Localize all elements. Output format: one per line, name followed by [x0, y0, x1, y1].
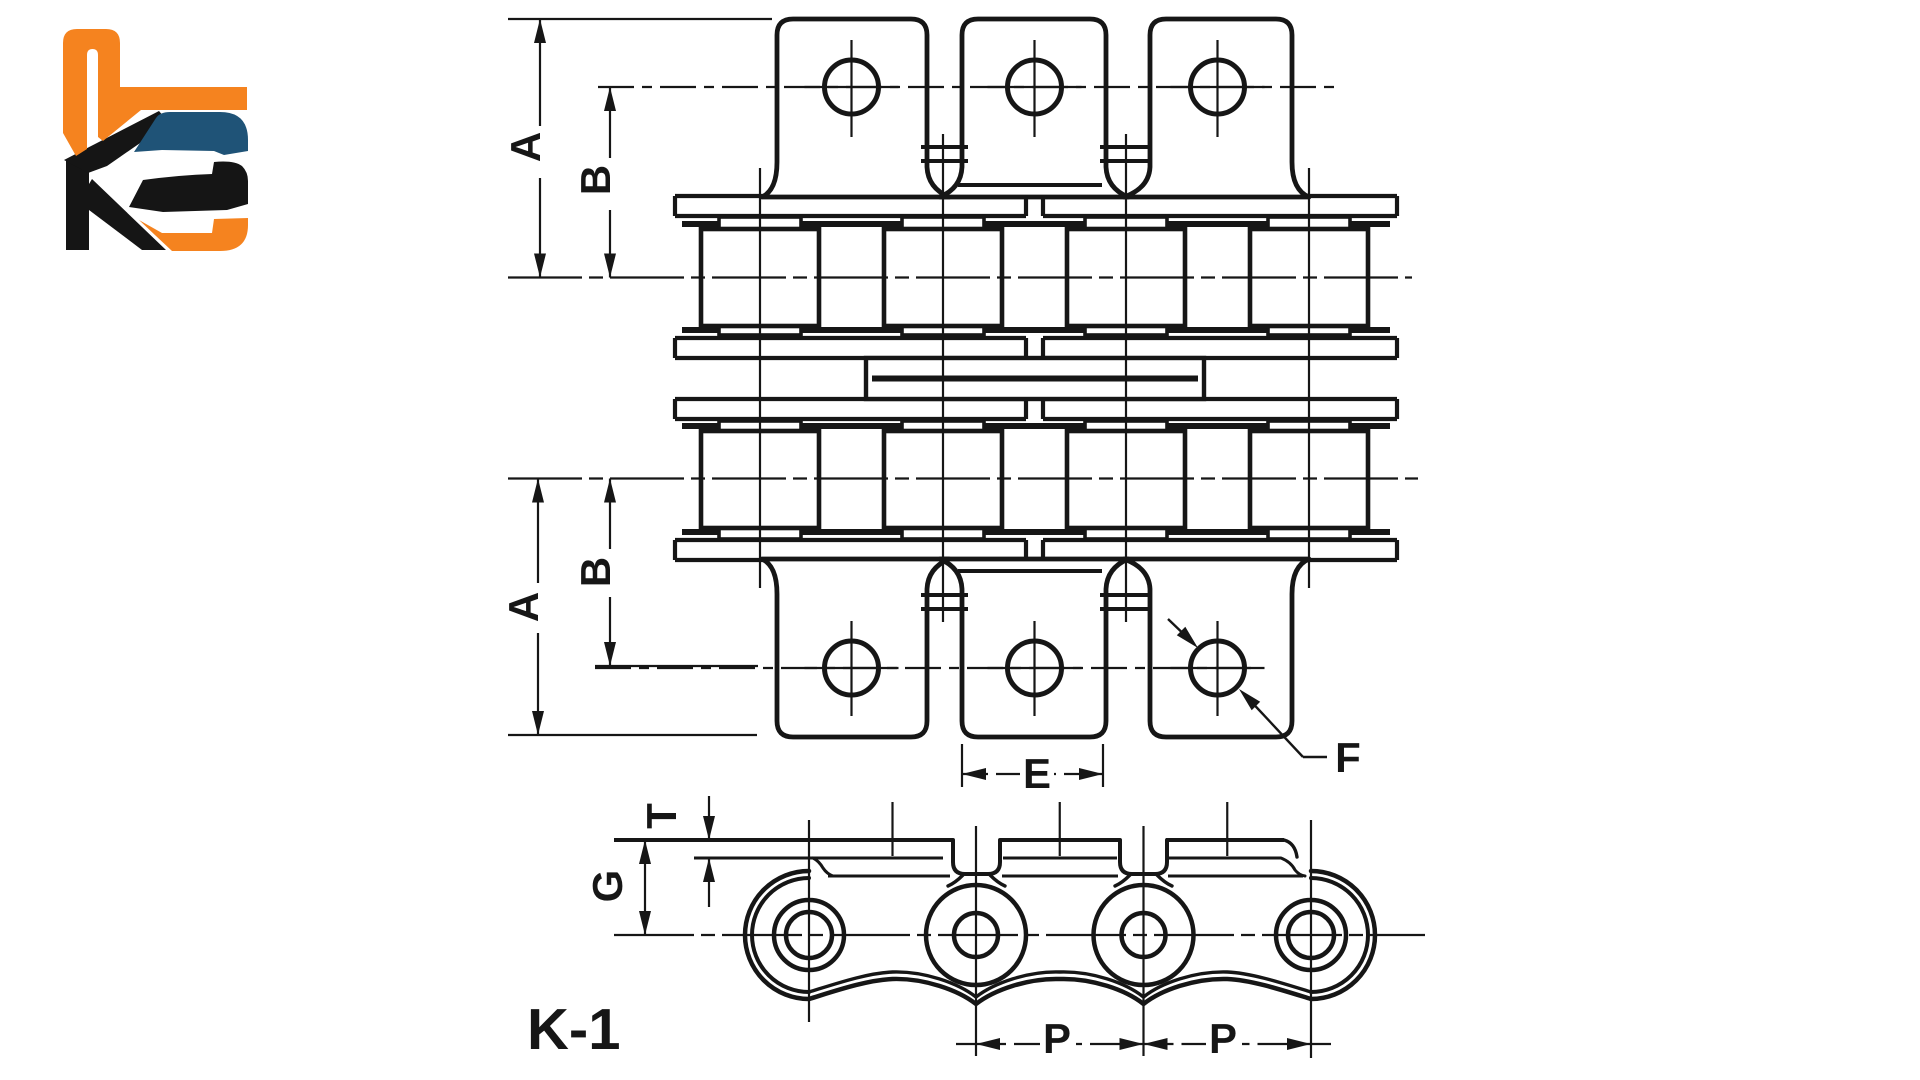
svg-text:F: F — [1335, 734, 1361, 781]
svg-text:P: P — [1043, 1015, 1071, 1062]
svg-text:K-1: K-1 — [527, 997, 620, 1062]
svg-text:G: G — [584, 870, 631, 903]
svg-text:P: P — [1209, 1015, 1237, 1062]
svg-text:T: T — [638, 803, 685, 829]
svg-text:A: A — [502, 132, 549, 162]
svg-text:B: B — [572, 557, 619, 587]
svg-text:A: A — [500, 592, 547, 622]
svg-text:E: E — [1023, 750, 1051, 797]
svg-text:B: B — [572, 165, 619, 195]
